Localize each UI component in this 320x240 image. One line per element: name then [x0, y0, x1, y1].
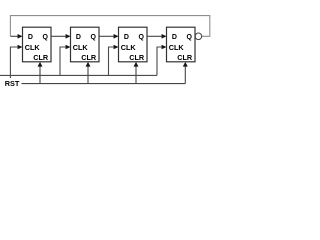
svg-text:CLR: CLR — [129, 53, 145, 62]
svg-text:Q: Q — [91, 34, 97, 41]
svg-text:CLK: CLK — [25, 43, 41, 52]
svg-text:CLR: CLR — [177, 53, 193, 62]
svg-text:CLK: CLK — [73, 43, 89, 52]
svg-text:CLK: CLK — [169, 43, 185, 52]
svg-text:D: D — [172, 34, 177, 41]
svg-text:Q: Q — [139, 34, 145, 41]
svg-text:D: D — [76, 34, 81, 41]
svg-text:D: D — [124, 34, 129, 41]
svg-text:Q: Q — [187, 34, 193, 41]
svg-text:CLR: CLR — [33, 53, 49, 62]
svg-text:CLR: CLR — [81, 53, 97, 62]
svg-text:RST: RST — [5, 79, 20, 88]
svg-text:CLK: CLK — [121, 43, 137, 52]
svg-text:Q: Q — [43, 34, 49, 41]
svg-text:D: D — [28, 34, 33, 41]
